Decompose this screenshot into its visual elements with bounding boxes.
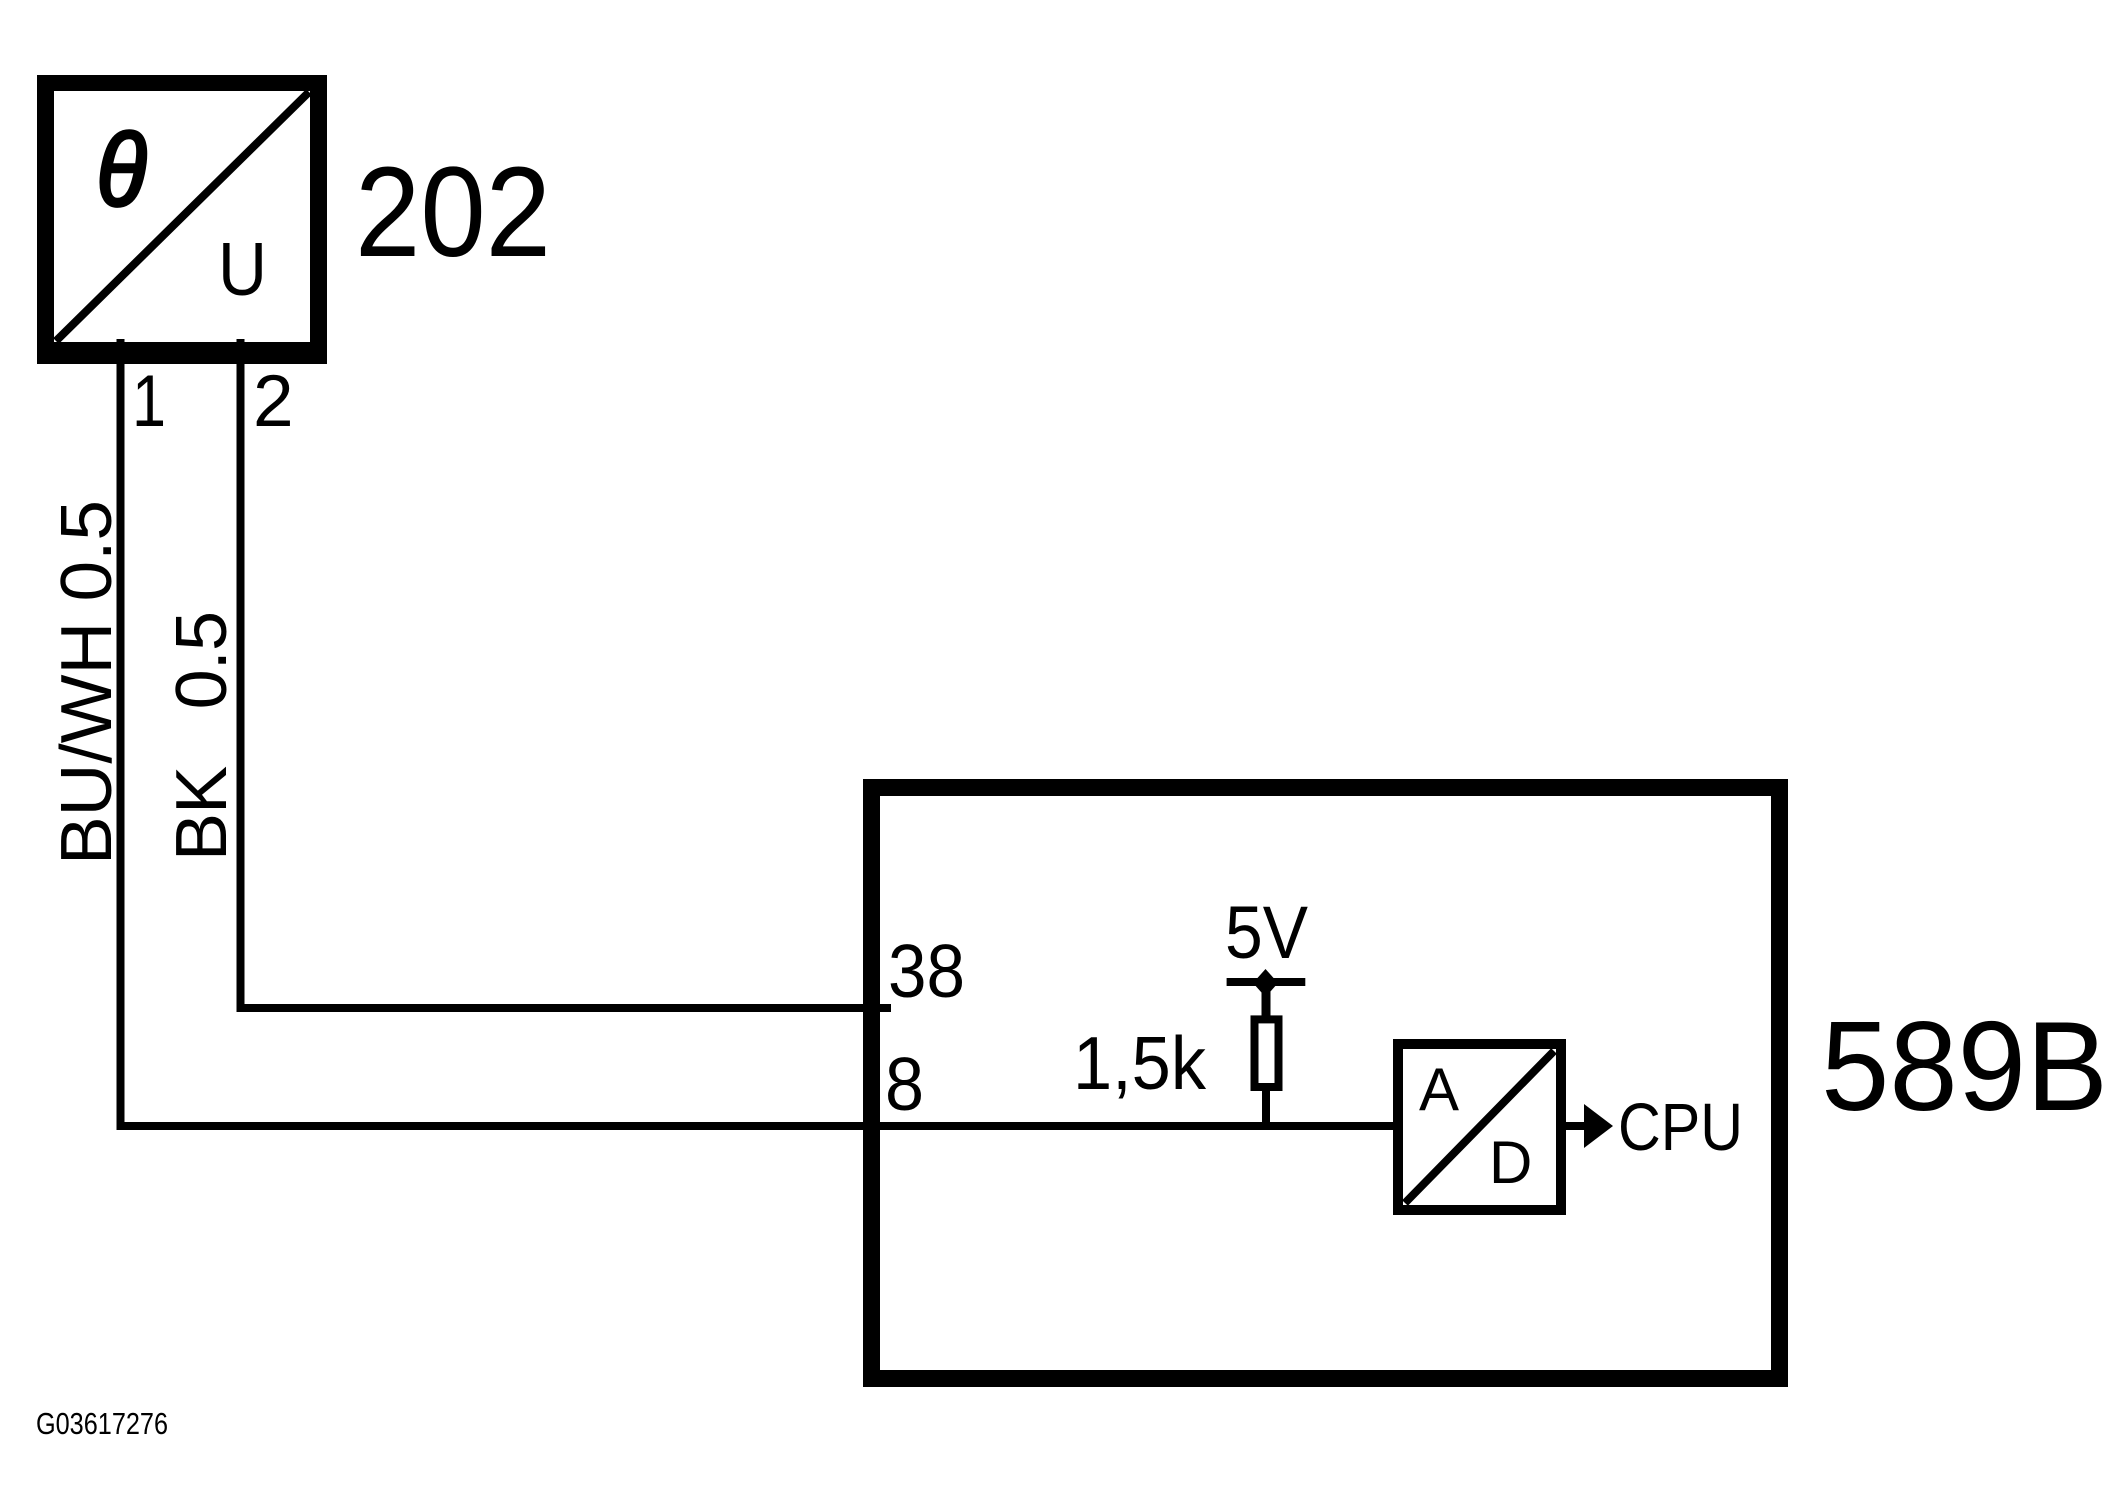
svg-text:BU/WH 0.5: BU/WH 0.5 bbox=[47, 500, 127, 865]
svg-text:U: U bbox=[218, 227, 267, 311]
svg-text:1: 1 bbox=[132, 361, 166, 442]
svg-text:A: A bbox=[1419, 1056, 1459, 1123]
svg-text:G03617276: G03617276 bbox=[36, 1406, 168, 1441]
svg-text:202: 202 bbox=[355, 141, 551, 284]
svg-text:BK 0.5: BK 0.5 bbox=[162, 611, 242, 861]
svg-text:2: 2 bbox=[253, 361, 294, 442]
svg-text:D: D bbox=[1489, 1129, 1532, 1196]
svg-text:5V: 5V bbox=[1225, 891, 1309, 974]
svg-text:8: 8 bbox=[885, 1042, 924, 1126]
svg-text:1,5k: 1,5k bbox=[1073, 1021, 1206, 1105]
svg-text:38: 38 bbox=[888, 929, 965, 1013]
svg-text:CPU: CPU bbox=[1618, 1090, 1743, 1165]
svg-text:589B: 589B bbox=[1821, 995, 2108, 1137]
svg-text:θ: θ bbox=[97, 113, 147, 227]
